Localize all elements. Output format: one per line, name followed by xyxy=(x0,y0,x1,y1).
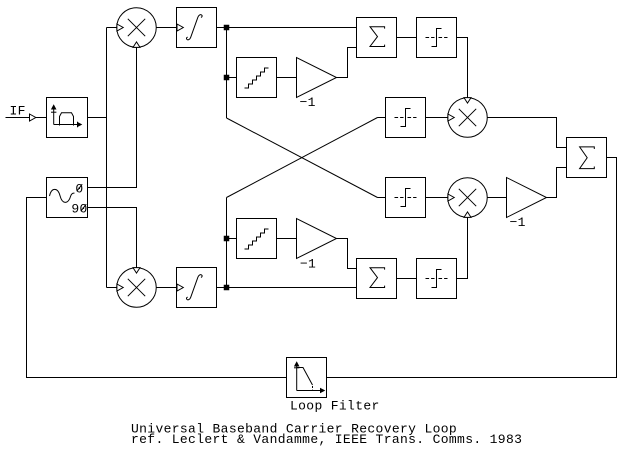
arrowhead into M3 left xyxy=(448,114,454,121)
multiplier M1 xyxy=(117,8,157,48)
arrowhead into M2 top xyxy=(133,268,140,274)
wire S1 to limiter L1 xyxy=(397,37,417,39)
wire M1 output to integrator INT1 xyxy=(156,27,176,29)
node J1 junction xyxy=(224,25,230,31)
wire node J3 to quantizer QZ2 xyxy=(227,238,237,240)
wire diagonal A to limiter L3 xyxy=(227,118,378,198)
limiter L4 box xyxy=(386,98,426,138)
svg-text:−1: −1 xyxy=(300,95,316,110)
amplifier A3 (-1) xyxy=(507,178,547,218)
label summer S3 sigma xyxy=(580,147,595,169)
svg-text:−1: −1 xyxy=(510,215,526,230)
wire L2 to multiplier M4 xyxy=(457,217,468,278)
limiter L1 symbol xyxy=(432,29,442,47)
arrowhead IF input xyxy=(30,114,36,121)
wire A1 output to summer S1 xyxy=(337,48,357,78)
node J4 junction xyxy=(224,285,230,291)
label VCO slashed zero marks xyxy=(77,184,82,191)
wire vertical bus B from node J4 xyxy=(226,198,228,288)
svg-text:0: 0 xyxy=(75,181,83,196)
wire node J2 to quantizer QZ1 xyxy=(227,77,237,79)
wire S2 to limiter L2 xyxy=(397,278,417,280)
node J2 junction xyxy=(224,75,230,81)
svg-text:Loop Filter: Loop Filter xyxy=(290,399,380,414)
wire VCO 0-deg output to M1 xyxy=(88,47,137,187)
wire M3 output to summer S3 xyxy=(487,118,566,148)
arrowhead into INT1 xyxy=(177,24,183,31)
integrator INT1 symbol xyxy=(186,15,202,40)
wire M4 output to amplifier A3 xyxy=(487,197,506,199)
arrowhead into INT2 xyxy=(177,284,183,291)
loop filter LPF box xyxy=(287,358,327,398)
wire A3 output to summer S3 xyxy=(547,168,567,198)
wire INT1 output to summer S1 xyxy=(217,27,357,29)
wire S3 output to loop filter xyxy=(327,158,617,378)
wire INT2 output to summer S2 xyxy=(217,287,357,289)
limiter L2 box xyxy=(417,259,457,299)
summer S2 box xyxy=(357,259,397,299)
limiter L3 symbol xyxy=(401,189,411,207)
arrowhead into M4 bottom xyxy=(464,212,471,218)
limiter L3 box xyxy=(386,178,426,218)
wire A2 output to summer S2 xyxy=(337,239,357,269)
wire L1 to multiplier M3 xyxy=(457,38,468,98)
BPF axis arrowheads xyxy=(51,104,57,109)
amplifier A2 (-1) xyxy=(297,219,337,259)
label summer S1 sigma xyxy=(370,27,385,47)
wire QZ2 to amplifier A2 xyxy=(277,238,297,240)
limiter L4 symbol xyxy=(401,109,411,127)
summer S1 box xyxy=(357,18,397,58)
wire IF input lead xyxy=(6,117,47,119)
arrowhead into M2 left xyxy=(117,284,123,291)
node J3 junction xyxy=(224,236,230,242)
limiter L1 box xyxy=(417,18,457,58)
quantizer QZ2 box xyxy=(237,219,277,259)
wire stub into limiter L4 xyxy=(378,117,386,119)
wire diagonal B to limiter L4 xyxy=(227,118,378,198)
wire BPF output to IF bus xyxy=(88,117,107,119)
oscillator VCO symbol xyxy=(50,189,75,202)
wire IF bus to multiplier M2 xyxy=(107,287,118,289)
label summer S2 sigma xyxy=(370,268,385,288)
arrowhead into M4 left xyxy=(448,194,454,201)
bandpass filter BPF symbol xyxy=(53,108,55,125)
svg-text:ref. Leclert & Vandamme, IEEE: ref. Leclert & Vandamme, IEEE Trans. Com… xyxy=(131,432,522,447)
multiplier M2 xyxy=(117,268,157,308)
svg-text:−1: −1 xyxy=(300,257,316,272)
multiplier M4 xyxy=(448,178,488,218)
integrator INT2 symbol xyxy=(186,275,202,300)
integrator INT1 box xyxy=(177,8,217,48)
wire IF bus to multiplier M1 xyxy=(107,27,118,29)
LPF axis arrowheads xyxy=(294,361,300,366)
wire loop filter output to VCO xyxy=(27,198,287,378)
arrowhead into M1 bottom xyxy=(133,42,140,48)
wire L3 to multiplier M4 xyxy=(426,197,448,199)
arrowhead into M1 left xyxy=(117,24,123,31)
limiter L2 symbol xyxy=(432,270,442,288)
wire L4 to multiplier M3 xyxy=(426,117,448,119)
amplifier A1 (-1) xyxy=(297,58,337,98)
multiplier M3 xyxy=(448,98,488,138)
quantizer QZ1 box xyxy=(237,58,277,98)
svg-text:90: 90 xyxy=(71,201,87,216)
oscillator VCO box xyxy=(47,178,88,218)
loop filter LPF symbol xyxy=(296,365,298,391)
wire stub into limiter L3 xyxy=(378,197,386,199)
integrator INT2 box xyxy=(177,268,217,308)
wire M2 output to integrator INT2 xyxy=(156,287,176,289)
bandpass filter BPF box xyxy=(47,98,88,138)
wire QZ1 to amplifier A1 xyxy=(277,77,297,79)
arrowhead into M3 top xyxy=(464,98,471,104)
wire VCO 90-deg output to M2 xyxy=(88,208,137,268)
svg-text:IF: IF xyxy=(10,104,26,119)
wire vertical bus A from node J1 xyxy=(226,28,228,119)
wire vertical IF bus xyxy=(106,28,108,288)
summer S3 box xyxy=(567,138,607,178)
